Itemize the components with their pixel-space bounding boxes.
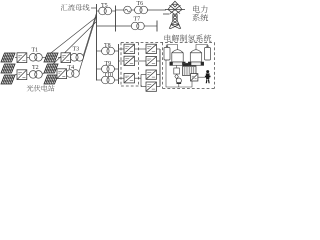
- wire bus2 to meter: [116, 9, 124, 11]
- rectifier A3: [124, 74, 135, 83]
- pipe bottom: [166, 60, 192, 87]
- wire diagonal T1-bus: [46, 17, 97, 57]
- wire label pointer: [91, 7, 97, 9]
- PV panel L1: [1, 53, 15, 62]
- wire A1 to B1: [135, 48, 147, 50]
- wire panel to inverter V1: [15, 57, 17, 59]
- node terminal bar: [156, 21, 158, 32]
- transformer T10: [97, 79, 102, 81]
- svg-text:T10: T10: [104, 73, 114, 79]
- pipe top-right: [196, 45, 208, 50]
- wire T5 to bus2: [111, 10, 115, 12]
- stack block: [183, 63, 197, 75]
- wire A2 to B2: [135, 60, 147, 62]
- transmission tower: [163, 1, 185, 29]
- hydrogen bottle: [206, 70, 209, 73]
- PV panel R1: [44, 53, 58, 62]
- wire T1 stub: [42, 56, 46, 58]
- svg-text:T3: T3: [73, 47, 80, 53]
- transformer T7: [131, 22, 139, 30]
- inverter V1: [17, 53, 27, 63]
- wire bus1 to T5: [97, 10, 100, 12]
- label bus: 汇流母线: [61, 4, 90, 11]
- node bus3 rectifier feed: [118, 44, 120, 84]
- wire diagonal T2-bus: [42, 73, 44, 76]
- rectifier B1: [146, 44, 157, 53]
- electrolyzer vessel R: [188, 50, 203, 66]
- svg-text:T8: T8: [104, 43, 111, 49]
- gas tank L: [164, 48, 170, 61]
- transformer T3: [71, 54, 79, 62]
- wires rectifiers to DC bus: [157, 48, 161, 50]
- svg-text:T7: T7: [134, 17, 141, 23]
- transformer T4: [66, 70, 74, 78]
- inverter V2: [17, 70, 27, 80]
- dashed enclosure electrolysis: [121, 43, 215, 89]
- PV panel R2: [44, 64, 58, 73]
- gas tank R: [205, 48, 211, 61]
- wire T6 to tower: [147, 9, 166, 11]
- svg-text:T4: T4: [68, 65, 75, 71]
- wires bus3 to rectifiers: [119, 48, 125, 50]
- label 电力系统: [193, 5, 207, 13]
- transformer T1: [29, 54, 37, 62]
- node bus1 collector bus: [96, 4, 98, 81]
- transformer T8: [97, 50, 102, 52]
- svg-text:T9: T9: [105, 61, 112, 67]
- wire diagonal T4-bus: [79, 16, 97, 73]
- rectifier B2: [146, 56, 157, 65]
- svg-text:T6: T6: [137, 1, 144, 7]
- rectifier B4: [146, 82, 157, 91]
- transformer T9: [97, 68, 102, 70]
- PV panel L2: [1, 64, 15, 73]
- wire bus1 to T7: [97, 25, 132, 27]
- pipe top-left: [167, 45, 178, 50]
- wire meter to T6: [131, 9, 134, 11]
- wire panel to inverter V2: [15, 74, 17, 76]
- transformer T6: [135, 6, 143, 14]
- wire diagonal T3-bus: [83, 13, 96, 56]
- transformer T2: [29, 71, 37, 79]
- rectifier A2: [124, 56, 135, 65]
- valve: [175, 74, 179, 79]
- svg-text:T5: T5: [101, 3, 108, 9]
- wire panelR to V3: [58, 57, 61, 59]
- node DC bus: [159, 49, 161, 87]
- wire V3 to T3: [70, 56, 73, 58]
- wire T7 to terminal: [144, 25, 157, 27]
- meter M1 circle with wave: [124, 6, 132, 14]
- svg-text:T2: T2: [32, 65, 39, 71]
- wire V2 to T2: [27, 74, 30, 76]
- inverter V4: [57, 69, 67, 79]
- separator box under vessel L: [176, 65, 178, 68]
- dc-dc converter Z: [191, 74, 198, 81]
- pump: [176, 78, 181, 83]
- wire V1 to T1: [27, 57, 30, 59]
- rectifier B3: [146, 70, 157, 79]
- label 光伏电站: [27, 85, 55, 91]
- inverter V3: [61, 53, 71, 63]
- svg-text:T1: T1: [32, 48, 39, 54]
- electrolyzer vessel L: [170, 50, 185, 66]
- node bus2 HV bar: [115, 6, 117, 32]
- PV panel R3: [44, 75, 58, 84]
- PV panel L3: [1, 75, 15, 84]
- transformer T5: [99, 7, 107, 15]
- rectifier A1: [124, 44, 135, 53]
- label 电解制氢系统: [165, 34, 212, 41]
- wire to bottle: [198, 76, 206, 78]
- wire A3 split: [135, 77, 142, 79]
